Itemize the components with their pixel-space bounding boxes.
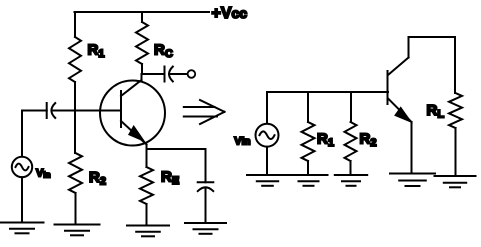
ground (under equivalent R1) [290,174,328,176]
svg-text:RL: RL [427,102,445,121]
ground (under equivalent R2) [335,174,367,176]
ground (under equivalent Vin) [247,174,288,176]
svg-text:R2: R2 [360,131,377,150]
transistor Q1 (BJT in circle) [100,74,165,149]
svg-text:RC: RC [154,42,173,61]
ground (under R2) [55,224,100,226]
resistor RL (load) [427,93,463,176]
ground (under RE) [127,225,169,227]
svg-text:RE: RE [161,169,179,188]
capacitor output coupling [142,67,188,82]
resistor R2 (equivalent) [345,92,377,175]
capacitor CE bypass [198,182,214,223]
transistor Q1 (equivalent, no circle) [388,58,412,174]
arrow: equivalence (double arrow) [184,100,225,124]
resistor RE (emitter) [140,149,179,226]
wire: collector to RL top rail [409,37,456,93]
resistor R1 (equivalent) [302,92,334,175]
resistor R2 (bias lower) [69,111,106,225]
svg-text:R1: R1 [88,42,105,61]
svg-text:R1: R1 [317,131,334,150]
svg-text:Vin: Vin [36,168,51,180]
wire: Vcc supply rail [75,11,210,13]
source Vin (AC signal source) [12,111,51,223]
wire: emitter node to bypass capacitor [147,149,206,182]
resistor R1 (bias upper) [69,12,104,111]
capacitor input coupling [22,103,55,118]
resistor RC (collector) [136,12,173,74]
ground (under RL) [435,175,476,177]
ground (under Vin source) [1,222,44,224]
svg-text:Vin: Vin [234,136,250,148]
wire: input bus (Vin to base) [267,91,388,93]
svg-text:+Vcc: +Vcc [212,5,248,22]
wire: base node to R1/R2 divider [52,110,122,112]
output terminal (open circle) [188,70,196,78]
ground (under equivalent emitter) [390,173,435,175]
source Vin (equivalent circuit) [234,92,278,175]
ground (under bypass capacitor) [185,222,226,224]
svg-text:R2: R2 [89,169,106,188]
